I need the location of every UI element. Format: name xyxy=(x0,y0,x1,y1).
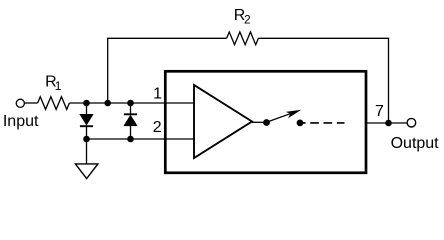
node dot A on input wire xyxy=(83,100,90,107)
ground xyxy=(75,164,98,179)
dashed linkage wire to pin 7 xyxy=(297,122,345,124)
switch throw dot xyxy=(297,120,304,127)
wire op-amp output to switch pole xyxy=(252,121,267,123)
svg-text:Output: Output xyxy=(391,135,440,152)
svg-text:1: 1 xyxy=(153,86,162,103)
wire R1 to pin 1 of U1 xyxy=(69,102,194,104)
node dot F output junction xyxy=(385,120,392,127)
node dot E on bottom rail xyxy=(127,136,134,143)
svg-text:2: 2 xyxy=(244,13,251,27)
IC box U1 xyxy=(165,71,366,173)
feedback top wire right of R2 xyxy=(258,37,389,39)
node dot D on bottom rail xyxy=(83,136,90,143)
node dot B feedback tap xyxy=(104,100,111,107)
node dot C diode 2 tap xyxy=(127,100,134,107)
switch arm xyxy=(266,113,293,123)
diode D1 cathode bar xyxy=(80,125,93,127)
diode D2 (pointing up) xyxy=(124,115,137,126)
feedback top wire left of R2 xyxy=(107,37,227,39)
feedback wire down right xyxy=(388,38,390,123)
wire vertical to diode D2 cathode xyxy=(130,103,132,114)
svg-text:2: 2 xyxy=(153,119,162,136)
input terminal xyxy=(16,99,24,107)
switch arm arrowhead xyxy=(286,110,302,118)
wire vertical to diode D1 anode xyxy=(86,103,88,115)
output terminal xyxy=(407,118,416,127)
wire to ground xyxy=(86,139,88,164)
diode D2 cathode bar xyxy=(124,113,137,115)
resistor R2 xyxy=(227,32,259,45)
feedback wire up left xyxy=(107,38,109,103)
wire input to R1 xyxy=(25,102,38,104)
bottom rail wire to pin 2 of U1 xyxy=(87,138,195,140)
wire D2 anode to bottom rail xyxy=(130,126,132,139)
switch pole dot xyxy=(263,119,270,126)
wire D1 cathode to bottom rail xyxy=(86,126,88,139)
resistor R1 xyxy=(38,97,70,110)
svg-text:7: 7 xyxy=(375,103,384,120)
wire pin 7 to output xyxy=(366,122,407,124)
diode D1 (pointing down) xyxy=(80,114,93,125)
svg-text:Input: Input xyxy=(3,113,39,130)
op-amp buffer triangle xyxy=(194,85,252,158)
svg-text:1: 1 xyxy=(55,79,62,93)
